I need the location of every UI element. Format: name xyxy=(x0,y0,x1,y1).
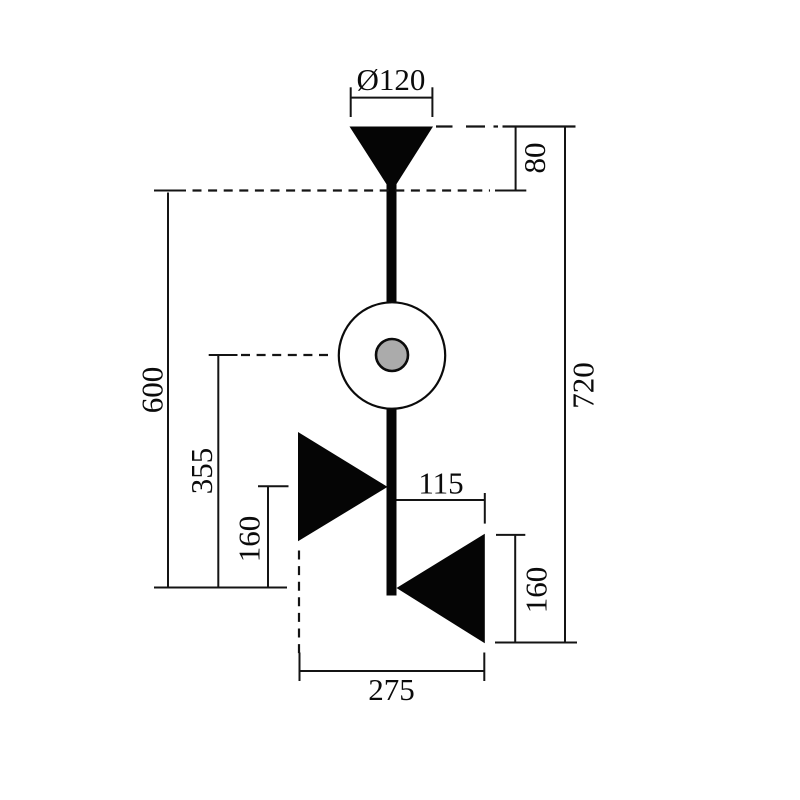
dimension 115 line, tick and label xyxy=(397,493,486,524)
dimension 80 vertical line xyxy=(495,127,526,191)
dimension 160 right vertical line and ticks xyxy=(496,535,525,643)
dashed extension line left of 275 xyxy=(298,551,300,658)
dimension 275 line and ticks xyxy=(300,653,485,682)
svg-text:80: 80 xyxy=(517,143,552,174)
left cone shade xyxy=(298,432,388,541)
dash-dot reference line at cone top right xyxy=(436,125,576,127)
dimension 160 left vertical line and top tick xyxy=(258,486,289,587)
dimension 720 vertical line xyxy=(495,127,577,643)
dimension 600 vertical line and top tick xyxy=(154,191,287,588)
svg-text:275: 275 xyxy=(368,672,415,707)
svg-text:Ø120: Ø120 xyxy=(357,62,426,97)
svg-text:720: 720 xyxy=(566,362,601,409)
svg-text:600: 600 xyxy=(135,367,170,414)
dimension D120 line and ticks xyxy=(351,87,433,117)
dashed reference line at circle center xyxy=(241,354,330,356)
top cone shade xyxy=(350,127,434,193)
hub gray circle xyxy=(376,339,408,371)
svg-text:160: 160 xyxy=(519,567,554,614)
svg-text:355: 355 xyxy=(184,448,219,495)
swivel circle xyxy=(339,302,445,408)
right cone shade xyxy=(397,534,485,644)
stem xyxy=(387,150,397,596)
svg-text:160: 160 xyxy=(232,516,267,563)
dimension 355 vertical line and top tick xyxy=(209,355,238,588)
dashed reference line top (through cone tip) xyxy=(193,189,491,191)
svg-text:115: 115 xyxy=(418,466,463,501)
